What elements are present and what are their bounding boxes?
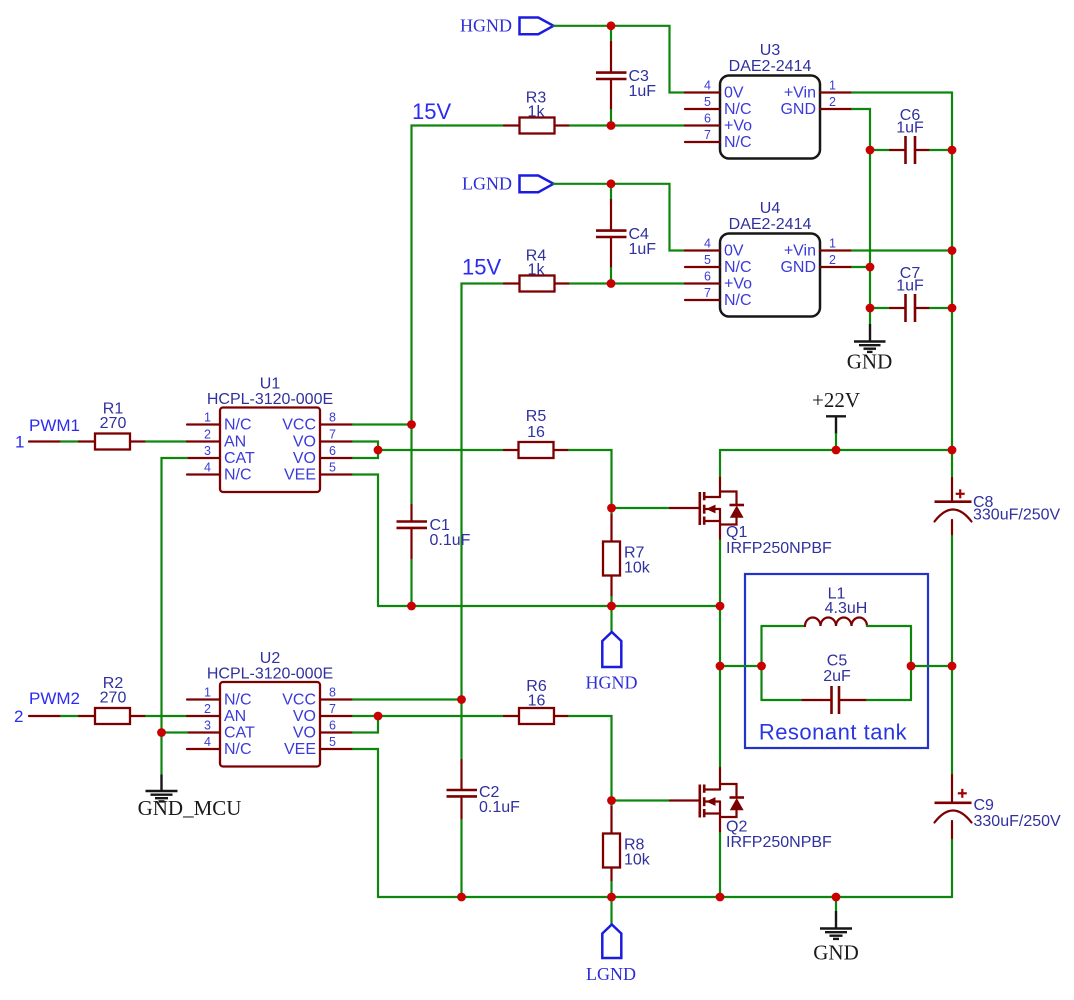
svg-text:U1: U1 (260, 376, 281, 393)
svg-text:6: 6 (704, 270, 711, 284)
svg-text:7: 7 (704, 128, 711, 142)
junction U1 VO merge node (374, 446, 383, 455)
svg-text:CAT: CAT (224, 725, 255, 742)
svg-text:GND: GND (780, 259, 816, 276)
svg-text:1k: 1k (528, 262, 546, 279)
U1 pin 7 VO (293, 428, 353, 451)
junction R4 / C4 / U4 +Vo node (607, 279, 616, 288)
wire U2 VO pins merge (353, 716, 504, 733)
svg-text:U2: U2 (260, 650, 281, 667)
svg-text:1uF: 1uF (896, 120, 924, 137)
junction R7 bottom / HGND flag (607, 602, 616, 611)
svg-text:6: 6 (329, 444, 336, 458)
inductor L1 4.3uH (762, 586, 912, 627)
U1 pin 3 CAT (187, 444, 255, 467)
svg-text:DAE2-2414: DAE2-2414 (729, 216, 812, 233)
U3 pin 2 GND (780, 95, 852, 118)
svg-text:GND: GND (780, 101, 816, 118)
svg-text:U3: U3 (760, 42, 781, 59)
wire U4 +Vin to right rail (852, 249, 952, 251)
capacitor C6 1uF (870, 107, 952, 164)
U3 pin 1 +Vin (784, 79, 852, 102)
power +22V (812, 388, 860, 450)
svg-text:1uF: 1uF (629, 83, 657, 100)
svg-text:GND: GND (847, 350, 893, 374)
junction U4 GND node (866, 263, 875, 272)
junction 15V / U2 VCC / C2 top (457, 695, 466, 704)
svg-text:N/C: N/C (224, 417, 252, 434)
svg-text:N/C: N/C (224, 467, 252, 484)
svg-text:270: 270 (100, 415, 127, 432)
wire U3 GND down (852, 109, 870, 150)
junction LGND rail / C4 (607, 179, 616, 188)
op-amp U2 HCPL-3120-000E body (207, 650, 333, 767)
node 2 PWM2 input (14, 689, 95, 726)
op-amp U1 HCPL-3120-000E body (207, 376, 333, 493)
wire R2 to U2 AN (146, 715, 187, 717)
junction tank left vertical (757, 662, 766, 671)
power flag LGND (top) (462, 174, 554, 194)
capacitor C5 2uF (762, 653, 912, 715)
power flag LGND (bottom) (586, 897, 636, 984)
U1 pin 8 VCC (282, 411, 353, 434)
wire C6 mid vertical (869, 150, 871, 308)
wire U1 VO pins merge (353, 442, 504, 459)
U2 pin 1 N/C (187, 686, 252, 709)
capacitor C9 330uF/250V (935, 775, 1062, 840)
svg-text:VO: VO (293, 725, 316, 742)
wire tank right link (911, 665, 952, 667)
resistor R5 16 (504, 408, 569, 458)
svg-text:1uF: 1uF (896, 278, 924, 295)
wire HGND rail (mid) (378, 605, 720, 607)
wire 15V to R3 and down to U1 VCC (412, 126, 505, 425)
svg-text:VO: VO (293, 434, 316, 451)
wire tank left vertical (760, 626, 762, 700)
wire R5 to Q1 gate node (569, 450, 612, 508)
wire tank left link (720, 665, 762, 667)
svg-text:VEE: VEE (284, 467, 316, 484)
wire LGND rail (554, 184, 686, 251)
wire right rail upper (951, 93, 953, 479)
wire Q2 source to LGND rail (719, 833, 721, 897)
svg-text:AN: AN (224, 708, 246, 725)
svg-text:+Vin: +Vin (784, 243, 816, 260)
svg-text:GND_MCU: GND_MCU (138, 796, 242, 820)
junction tank right vertical (907, 662, 916, 671)
wire right rail lower (951, 840, 953, 897)
resistor R6 16 (504, 678, 569, 724)
svg-text:4: 4 (704, 79, 711, 93)
junction +22V rail / right rail (948, 446, 957, 455)
svg-text:2: 2 (204, 702, 211, 716)
wire tank right vertical (910, 626, 912, 700)
svg-text:DAE2-2414: DAE2-2414 (729, 58, 812, 75)
U1 pin 2 AN (187, 428, 246, 451)
resonant tank enclosure box (745, 574, 928, 748)
svg-text:1: 1 (204, 686, 211, 700)
svg-text:R5: R5 (526, 408, 547, 425)
svg-text:3: 3 (204, 719, 211, 733)
svg-text:2: 2 (204, 428, 211, 442)
svg-text:10k: 10k (624, 560, 651, 577)
capacitor C1 0.1uF (397, 425, 471, 607)
U2 pin 2 AN (187, 702, 246, 725)
svg-text:3: 3 (204, 444, 211, 458)
svg-text:CAT: CAT (224, 450, 255, 467)
svg-text:7: 7 (329, 428, 336, 442)
junction Q1 source on HGND rail (716, 602, 725, 611)
junction GND stem on bottom rail (832, 893, 841, 902)
wire U2 VCC to 15V vertical (353, 698, 462, 700)
U2 pin 5 VEE (284, 735, 353, 758)
svg-text:N/C: N/C (224, 741, 252, 758)
U4 pin 1 +Vin (784, 237, 852, 260)
svg-text:0V: 0V (724, 243, 744, 260)
svg-text:1uF: 1uF (629, 241, 657, 258)
wire R4 to U4 pin6 (570, 282, 685, 284)
power flag HGND (top) (460, 16, 554, 36)
junction C7 right on +22V rail (948, 304, 957, 313)
ground GND_MCU (138, 733, 242, 821)
junction U1-U2 CAT / GND_MCU (157, 728, 166, 737)
U2 pin 8 VCC (282, 686, 353, 709)
svg-text:C9: C9 (974, 797, 995, 814)
wire U2 VEE down to LGND rail (353, 749, 378, 897)
junction C7 left / GND stem (866, 304, 875, 313)
svg-text:HCPL-3120-000E: HCPL-3120-000E (207, 391, 333, 408)
svg-text:5: 5 (704, 253, 711, 267)
svg-text:8: 8 (329, 686, 336, 700)
U2 pin 6 VO (293, 719, 353, 742)
svg-text:1k: 1k (528, 104, 546, 121)
svg-text:7: 7 (704, 286, 711, 300)
junction Q2 gate / R6 / R8 (607, 796, 616, 805)
op-amp U3 DAE2-2414 converter body (720, 42, 820, 159)
svg-text:0V: 0V (724, 85, 744, 102)
junction HGND rail / C3 (607, 21, 616, 30)
wire U1 VCC to 15V vertical (353, 423, 412, 425)
U2 pin 7 VO (293, 702, 353, 725)
svg-text:+Vin: +Vin (784, 85, 816, 102)
svg-text:HGND: HGND (460, 16, 512, 36)
wire +22V rail (720, 449, 952, 451)
svg-text:1: 1 (829, 79, 836, 93)
svg-text:N/C: N/C (224, 692, 252, 709)
U1 pin 4 N/C (187, 461, 252, 484)
ground GND (upper) (847, 308, 893, 374)
ground GND (bottom) (813, 897, 859, 965)
svg-text:2uF: 2uF (823, 668, 851, 685)
svg-text:IRFP250NPBF: IRFP250NPBF (726, 834, 832, 851)
svg-text:VEE: VEE (284, 741, 316, 758)
U4 pin 2 GND (780, 253, 852, 276)
resistor R2 270 (95, 675, 146, 724)
wire R1 to U1 AN (146, 440, 187, 442)
resistor R8 10k (603, 801, 651, 898)
capacitor C7 1uF (870, 265, 952, 322)
svg-text:0.1uF: 0.1uF (430, 532, 471, 549)
junction C1 bottom on HGND rail (407, 602, 416, 611)
svg-text:C5: C5 (827, 653, 848, 670)
wire U2 CAT stub (162, 731, 188, 733)
svg-text:8: 8 (329, 411, 336, 425)
svg-text:N/C: N/C (724, 134, 752, 151)
wire R6 to Q2 gate node (569, 716, 612, 801)
transistor Q2 IRFP250NPBF (670, 768, 832, 851)
wire HGND rail (554, 26, 686, 93)
U2 pin 4 N/C (187, 735, 252, 758)
svg-text:2: 2 (829, 95, 836, 109)
svg-text:VCC: VCC (282, 692, 316, 709)
svg-text:4.3uH: 4.3uH (825, 600, 868, 617)
transistor Q1 IRFP250NPBF (670, 476, 832, 557)
svg-text:VO: VO (293, 708, 316, 725)
svg-text:4: 4 (704, 237, 711, 251)
wire U1 VEE down to HGND rail (353, 475, 378, 607)
svg-text:16: 16 (527, 424, 545, 441)
svg-text:7: 7 (329, 702, 336, 716)
U4 pin 6 +Vo (685, 270, 752, 293)
svg-text:5: 5 (704, 95, 711, 109)
junction 15V / U1 VCC / C1 top (407, 420, 416, 429)
resistor R7 10k (603, 508, 651, 606)
wire tank row down to Q2 drain (719, 666, 721, 768)
svg-text:10k: 10k (624, 852, 651, 869)
svg-text:PWM1: PWM1 (29, 416, 80, 435)
wire LGND bottom rail (378, 896, 952, 898)
junction U3 GND / C6 left (866, 146, 875, 155)
wire R3 to U3 pin6 (570, 124, 685, 126)
svg-text:1: 1 (829, 237, 836, 251)
wire gate node to Q2 (612, 799, 671, 801)
svg-text:VCC: VCC (282, 417, 316, 434)
svg-text:U4: U4 (760, 200, 781, 217)
svg-text:2: 2 (14, 707, 23, 726)
svg-text:15V: 15V (412, 99, 451, 124)
U3 pin 7 N/C (685, 128, 752, 151)
junction C2 bottom on LGND rail (457, 893, 466, 902)
junction R3 / C3 / U3 +Vo node (607, 121, 616, 130)
svg-text:Q1: Q1 (726, 524, 747, 541)
svg-text:Resonant tank: Resonant tank (759, 720, 908, 745)
wire right rail middle (951, 536, 953, 775)
svg-text:GND: GND (813, 941, 859, 965)
U3 pin 5 N/C (685, 95, 752, 118)
wire 15V to R4 and down to U2 VCC (462, 284, 505, 700)
capacitor C8 330uF/250V (935, 478, 1061, 536)
svg-text:N/C: N/C (724, 101, 752, 118)
U4 pin 5 N/C (685, 253, 752, 276)
wire gate node to Q1 (612, 507, 671, 509)
wire Q1 source to HGND rail (719, 541, 721, 607)
svg-text:4: 4 (204, 735, 211, 749)
resistor R4 1k (504, 248, 570, 292)
U1 pin 1 N/C (187, 411, 252, 434)
power flag HGND (bottom) (586, 606, 638, 693)
svg-text:N/C: N/C (724, 292, 752, 309)
capacitor C4 (596, 184, 656, 284)
svg-text:IRFP250NPBF: IRFP250NPBF (726, 540, 832, 557)
svg-text:HGND: HGND (586, 673, 638, 693)
U1 pin 6 VO (293, 444, 353, 467)
svg-text:4: 4 (204, 461, 211, 475)
node 1 PWM1 input (15, 416, 95, 452)
U3 pin 6 +Vo (685, 112, 752, 135)
wire Q1 drain up to +22V rail (719, 450, 721, 476)
svg-text:270: 270 (100, 690, 127, 707)
junction half-bridge mid / tank left feed (716, 662, 725, 671)
junction C6 right on +22V rail (948, 146, 957, 155)
svg-text:5: 5 (329, 735, 336, 749)
svg-text:Q2: Q2 (726, 819, 747, 836)
wire U1 CAT down to GND_MCU net (162, 458, 188, 733)
junction U2 VO merge node (374, 712, 383, 721)
capacitor C2 0.1uF (447, 700, 521, 898)
capacitor C3 (596, 26, 656, 126)
svg-text:330uF/250V: 330uF/250V (973, 507, 1061, 524)
svg-text:15V: 15V (462, 255, 501, 280)
svg-text:1: 1 (15, 433, 24, 452)
U2 pin 3 CAT (187, 719, 255, 742)
svg-text:PWM2: PWM2 (29, 689, 80, 708)
junction tank feed on right rail (948, 662, 957, 671)
svg-text:HCPL-3120-000E: HCPL-3120-000E (207, 666, 333, 683)
junction Q2 source on LGND rail (716, 893, 725, 902)
U3 pin 4 0V (685, 79, 744, 102)
svg-text:16: 16 (528, 693, 546, 710)
resistor R1 270 (95, 401, 146, 450)
op-amp U4 DAE2-2414 converter body (720, 200, 820, 317)
U1 pin 5 VEE (284, 461, 353, 484)
junction U4 +Vin on +22V rail (948, 246, 957, 255)
wire U3 +Vin to right rail (852, 91, 952, 93)
wire mid rail down to tank row (719, 606, 721, 666)
junction Q1 gate / R5 / R7 (607, 504, 616, 513)
svg-text:N/C: N/C (724, 259, 752, 276)
svg-text:AN: AN (224, 434, 246, 451)
svg-text:0.1uF: 0.1uF (479, 799, 520, 816)
svg-text:2: 2 (829, 253, 836, 267)
svg-text:6: 6 (704, 112, 711, 126)
wire U4 GND to node (852, 266, 870, 268)
svg-text:VO: VO (293, 450, 316, 467)
svg-text:+Vo: +Vo (724, 118, 752, 135)
svg-text:LGND: LGND (586, 964, 636, 984)
svg-text:5: 5 (329, 461, 336, 475)
resistor R3 1k (504, 90, 570, 134)
svg-text:330uF/250V: 330uF/250V (974, 813, 1062, 830)
svg-text:LGND: LGND (462, 174, 512, 194)
U4 pin 4 0V (685, 237, 744, 260)
U4 pin 7 N/C (685, 286, 752, 309)
svg-text:+22V: +22V (812, 388, 860, 412)
svg-text:+Vo: +Vo (724, 276, 752, 293)
svg-text:6: 6 (329, 719, 336, 733)
junction +22V tap (832, 446, 841, 455)
junction R8 bottom / LGND flag (607, 893, 616, 902)
svg-text:1: 1 (204, 411, 211, 425)
